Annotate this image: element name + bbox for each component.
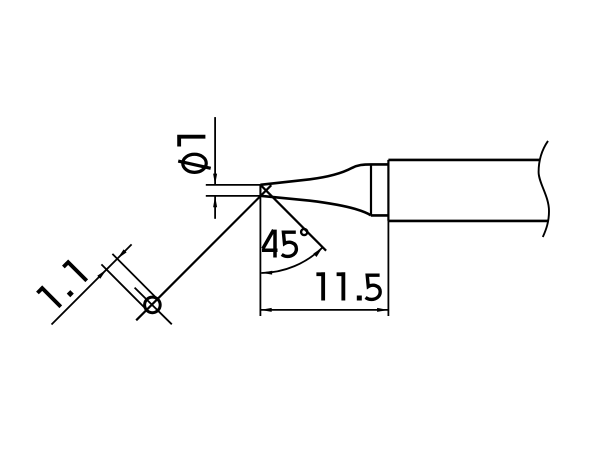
angle arc (261, 247, 323, 273)
1.1 extension line upper (112, 254, 158, 300)
label 45 degrees (262, 230, 278, 258)
phi1 extension line bottom (206, 195, 261, 197)
barrel left edge (387, 160, 389, 221)
tip bottom profile (260, 196, 371, 216)
1.1 lower arrow (97, 269, 106, 278)
barrel top edge (388, 159, 540, 162)
barrel bottom edge (388, 220, 548, 223)
ferrule bottom edge (371, 214, 388, 217)
phi1 dimension line lower (214, 196, 216, 218)
barrel extension line (right of 11.5) (387, 221, 389, 316)
1.1 upper arrow (117, 249, 126, 258)
label phi1 (177, 137, 211, 173)
circle axis line (135, 288, 172, 325)
45 degree leg line (260, 185, 326, 251)
phi1 dimension line upper (214, 117, 216, 184)
phi1 extension line top (206, 184, 261, 186)
vertex extension line (vertical from tip) (259, 185, 261, 316)
tip top profile (260, 164, 371, 184)
degree ring (301, 229, 307, 235)
ferrule top edge (371, 163, 388, 166)
tip face edge (259, 185, 261, 196)
phi1 arrow down (213, 174, 217, 185)
ferrule left edge (370, 164, 372, 215)
label 1.1 (36, 261, 87, 312)
11.5 left arrow (260, 308, 271, 312)
label 11.5 (316, 272, 323, 300)
arc arrow upper (313, 247, 322, 257)
1.1 extension line lower (101, 264, 147, 310)
1.1 dimension line (52, 244, 132, 324)
break line (539, 141, 549, 237)
11.5 right arrow (377, 308, 388, 312)
11.5 dimension line (260, 309, 388, 311)
bevel face line (136, 185, 271, 320)
phi1 arrow up (213, 196, 217, 207)
bevel face circle (145, 297, 161, 313)
arc arrow left (261, 271, 272, 275)
